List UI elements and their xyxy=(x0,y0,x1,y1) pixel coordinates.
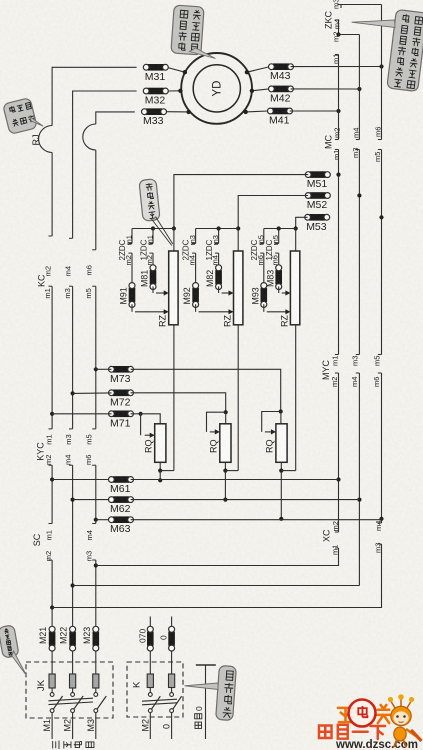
bottom bus line1 (phase3 to XC m1) xyxy=(96,565,339,567)
wire phase1 KC lower terminal to KYC upper terminal xyxy=(49,285,53,287)
junction M42-bus2 xyxy=(357,87,361,91)
callout: single-winding two-speed motor xyxy=(171,5,204,55)
junction M51-bus1 xyxy=(336,173,340,177)
motor terminal leads left xyxy=(168,68,185,73)
group1 branch bar xyxy=(132,228,174,230)
wire phase2 KC lower terminal to KYC upper terminal xyxy=(69,285,73,287)
wire phase1 SC lower terminal down to M21 xyxy=(49,559,53,561)
wire phase1 vertical upper segment xyxy=(51,67,53,126)
callout: speed-regulating resistor xyxy=(139,179,160,222)
resistor M71 xyxy=(109,411,134,429)
resistor RQ3 xyxy=(276,424,287,463)
RQ3 wiper arm xyxy=(262,412,281,432)
junction M53-bus3 xyxy=(379,215,383,219)
junction M52-bus2 xyxy=(357,193,361,197)
motor terminal leads right xyxy=(247,67,269,72)
JK fuse 3 xyxy=(93,674,99,688)
resistor M71 lead from phase1 xyxy=(52,413,111,415)
resistor M82 xyxy=(205,265,221,290)
RZ3 bottom wire down to RQ tie xyxy=(295,325,297,471)
wire M92 to RZ2 left lower tap xyxy=(195,304,197,312)
resistor M73 lead from phase3 xyxy=(96,368,112,370)
wire M53 to RZ group3 xyxy=(296,217,308,228)
wire phase1 KYC lower terminal to SC upper terminal xyxy=(49,464,53,466)
resistor M73 xyxy=(109,366,134,384)
junction phase2-M62 xyxy=(71,498,75,502)
JK knife contact 3 xyxy=(94,693,98,697)
contact 2ZDC branch (terminals m3/m4) xyxy=(195,229,197,244)
group1 junction at branch bar xyxy=(172,226,176,230)
bus1 XC lower segment and corner to line1 xyxy=(335,547,339,549)
wire M91 to RZ1 left lower tap xyxy=(131,304,133,312)
label earth-wire 0 xyxy=(194,706,204,728)
callout: ZKC contactor fast-run note xyxy=(387,9,423,91)
resistor M91 xyxy=(119,283,135,308)
wire to RQ1 top xyxy=(141,414,161,424)
JK knife contact 2 xyxy=(71,693,75,697)
contact 2ZDC branch (terminals m1/m2) xyxy=(131,229,133,244)
K pole 1 wire into box xyxy=(149,651,151,674)
bus3 MYC lower segment to XC xyxy=(378,372,382,374)
wire M93 to RZ3 left lower tap xyxy=(263,304,265,312)
thermal protector RJ bump on phase1 xyxy=(39,126,53,153)
resistor M72 lead from phase2 xyxy=(73,392,112,395)
resistor M31 xyxy=(143,64,168,82)
scan noise overlay xyxy=(0,0,1,1)
contact 1ZDC branch (terminals m5/m6) xyxy=(278,229,280,244)
callout: main power switch xyxy=(0,625,19,658)
JK pole 1 output wire xyxy=(51,713,53,740)
resistor M41 xyxy=(268,108,293,126)
junction phase1 to bottom bus line3 xyxy=(50,605,54,609)
resistor M61 and wire to bus1 xyxy=(52,479,111,481)
resistor M93 xyxy=(250,283,266,308)
wire M71 feed junction xyxy=(131,413,141,415)
RQ1 bottom down to M61 wire xyxy=(159,471,161,481)
terminal 070 xyxy=(147,626,153,651)
lighting switch box K dashed outline xyxy=(127,662,183,717)
junction M43-bus3 xyxy=(379,64,383,68)
resistor M83 xyxy=(265,265,281,290)
wire phase3 KYC lower terminal to SC upper terminal xyxy=(92,464,96,466)
contactor ZKC terminal m1 and bus1 upper segment to MC xyxy=(335,54,339,56)
contact 1ZDC branch (terminals m3/m4) xyxy=(218,229,220,244)
ZKC junction m2 node xyxy=(336,32,340,36)
JK pole 2 wire from M22 into box xyxy=(72,651,74,674)
earth wire 0 xyxy=(205,665,207,739)
resistor M81 xyxy=(140,265,156,290)
lighting feed stub 0 xyxy=(171,617,173,627)
bottom bus line2 (phase2 to bus2) xyxy=(73,585,360,587)
wire phase3 vertical upper segment xyxy=(95,111,97,124)
junction phase3 to bottom bus line1 xyxy=(94,563,98,567)
group3 branch bar xyxy=(264,228,296,230)
label three-phase supply xyxy=(53,740,59,749)
watermark mascot xyxy=(388,694,422,747)
RZ1 bottom wire down to RQ tie xyxy=(173,325,175,471)
resistor M52 xyxy=(305,193,330,211)
bus1 MYC lower segment to XC xyxy=(335,372,339,374)
junction phase1-M61 xyxy=(50,477,54,481)
terminal M21 xyxy=(38,626,55,651)
JK pole 3 wire from M23 into box xyxy=(95,651,97,674)
junction phase2-M72 xyxy=(71,391,75,395)
wire M52 to RZ group2 xyxy=(238,196,308,229)
wire phase2 KYC lower terminal down to M22 xyxy=(69,464,73,466)
group2 branch bar xyxy=(196,228,239,230)
K pole 2 wire into box xyxy=(171,651,173,674)
contactor ZKC terminal m3 top wire to bus3 xyxy=(341,4,382,6)
wire M42 to bus2 xyxy=(291,88,360,90)
bus1 MC lower segment to MYC xyxy=(335,149,339,151)
terminal M22 xyxy=(59,626,76,651)
resistor RZ1 xyxy=(169,251,178,325)
ZKC jog to bus2 xyxy=(339,34,360,36)
group3 junction at branch bar xyxy=(294,226,298,230)
main wire into RZ1 top xyxy=(173,229,175,252)
K knife contact 1 xyxy=(148,693,152,697)
wire phase3 SC lower terminal down to M23 xyxy=(92,559,96,561)
RQ3 bottom down to M63 wire xyxy=(280,471,282,519)
watermark brand text weiku-yixia xyxy=(319,725,385,739)
K linkage bars xyxy=(142,699,177,701)
group2 branch junction xyxy=(217,226,221,230)
motor YD outer circle xyxy=(181,53,252,124)
junction phase2 to bottom bus line2 xyxy=(71,583,75,587)
motor YD inner circle xyxy=(193,65,240,112)
JK pole 2 output wire xyxy=(72,713,74,740)
wire M81 to RZ1 left upper tap xyxy=(152,286,154,293)
K fuse 1 xyxy=(147,674,153,688)
main wire into RZ2 top xyxy=(237,229,239,252)
junction RQ2 feed xyxy=(224,410,228,414)
thermal protector RJ bump on phase3 xyxy=(83,124,96,150)
contact 1ZDC branch (terminals m1/m2) xyxy=(152,229,154,244)
junction M61-bus1 xyxy=(336,477,340,481)
wire into RQ3 top xyxy=(280,412,282,424)
RZ2 bottom wire down to RQ tie xyxy=(237,325,239,471)
JK pole 1 wire from M21 into box xyxy=(51,651,53,674)
junction M41-bus1 xyxy=(336,109,340,113)
contactor ZKC terminal m4 stub xyxy=(338,20,340,35)
junction phase1-M71 xyxy=(50,412,54,416)
JK fuse 1 xyxy=(49,674,55,688)
resistor M92 xyxy=(182,283,198,308)
junction phase3-M73 xyxy=(94,367,98,371)
wire M82 to RZ2 left upper tap xyxy=(218,286,220,293)
resistor M33 xyxy=(142,109,167,127)
bus2 MC lower segment to MYC xyxy=(356,149,360,151)
resistor M51 xyxy=(305,172,330,190)
callout: motor thermal protector switch xyxy=(3,98,38,135)
wire phase2 vertical to KC upper terminal xyxy=(72,91,74,239)
JK fuse 2 xyxy=(70,674,76,688)
bus3 vertical upper segment to MC xyxy=(381,5,383,140)
group2 junction at branch bar xyxy=(236,226,240,230)
K knife contact 2 xyxy=(170,693,174,697)
wire M73 feed to RQ3 xyxy=(131,369,281,411)
wire phase3 from RJ bump to KC upper terminal xyxy=(95,150,97,250)
main wire into RZ3 top xyxy=(295,229,297,252)
junction RQ3 feed xyxy=(279,409,283,413)
wire phase1 top horizontal from corner to M31 xyxy=(52,66,137,68)
resistor M72 xyxy=(109,390,134,408)
resistor RZ3 xyxy=(290,251,299,325)
RQ3 bottom to RZ3 bus tie xyxy=(280,462,282,470)
RQ1 bottom to RZ1 bus tie xyxy=(159,462,161,470)
resistor RQ2 xyxy=(220,424,231,463)
resistor M43 xyxy=(269,64,294,82)
watermark logo ring xyxy=(349,700,376,727)
K fuse 2 xyxy=(169,674,175,688)
RQ2 bottom to RZ2 bus tie xyxy=(224,462,226,470)
bus3 MC lower segment to MYC xyxy=(378,149,382,151)
bus2 MYC lower segment down to line2 corner xyxy=(356,372,360,374)
resistor M53 xyxy=(305,214,330,232)
terminal M23 xyxy=(82,626,99,651)
resistor M63 and wire to bus3 xyxy=(96,519,112,521)
bus2 corner to line2 xyxy=(73,585,360,587)
resistor RQ1 xyxy=(155,424,166,463)
bus2 vertical upper segment to MC xyxy=(358,35,360,140)
K pole 2 output wire xyxy=(171,713,173,740)
wire phase1 from RJ bump to KC upper terminal xyxy=(51,153,53,237)
JK knife contact 1 xyxy=(50,693,54,697)
RQ1 wiper arm xyxy=(140,414,142,435)
wire M41 to bus1 xyxy=(290,110,339,112)
K pole 1 output wire xyxy=(149,713,151,740)
group3 branch junction xyxy=(277,226,281,230)
wire into RQ2 top xyxy=(225,412,227,424)
terminal 0 (neutral) xyxy=(169,626,175,651)
RQ2 wiper arm xyxy=(207,412,226,432)
watermark logo: find-chip text xyxy=(338,705,391,723)
wire M72 feed to RQ2 xyxy=(131,393,226,412)
group1 branch junction xyxy=(151,226,155,230)
wire M43 to bus3 xyxy=(291,66,382,68)
resistor M42 xyxy=(269,86,294,104)
bottom bus line3 (phase1 to XC m3) xyxy=(52,607,381,609)
RQ2 bottom down to M62 wire xyxy=(224,471,226,500)
bus3 XC lower segment and corner to line3 xyxy=(378,543,382,545)
contact 2ZDC branch (terminals m5/m6) xyxy=(263,229,265,244)
lighting feed stub 070 xyxy=(149,617,151,627)
junction M62-bus2 xyxy=(357,498,361,502)
main switch box JK dashed outline xyxy=(26,662,113,718)
wire phase3 KC lower terminal to KYC upper terminal xyxy=(92,285,96,287)
wire M51 to RZ group1 xyxy=(174,175,308,229)
junction phase3-M63 xyxy=(94,518,98,522)
callout: lighting switch xyxy=(216,665,237,720)
wire phase2 top horizontal from corner to M32 xyxy=(73,90,137,92)
wire M83 to RZ3 left upper tap xyxy=(278,286,280,293)
junction M63-bus3 xyxy=(379,517,383,521)
resistor M62 and wire to bus2 xyxy=(73,499,112,501)
JK pole 3 output wire xyxy=(95,713,97,740)
resistor RZ2 xyxy=(234,251,243,325)
JK linkage bars xyxy=(49,698,94,701)
wire phase3 top horizontal from corner to M33 xyxy=(96,111,135,113)
resistor M32 xyxy=(143,88,168,106)
